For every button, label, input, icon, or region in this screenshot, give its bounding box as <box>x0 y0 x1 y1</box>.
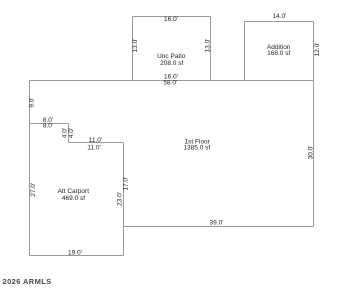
svg-text:8.0': 8.0' <box>43 123 53 130</box>
wire carport bottom wall 19.0 <box>30 255 124 257</box>
wire jog wall 4.0 <box>68 124 70 143</box>
svg-text:11.0': 11.0' <box>87 144 100 151</box>
svg-text:58.0': 58.0' <box>163 80 177 87</box>
svg-text:Unc Patio: Unc Patio <box>157 53 186 60</box>
svg-text:16.0': 16.0' <box>164 16 178 23</box>
wire west wall <box>29 81 31 256</box>
svg-text:11.0': 11.0' <box>89 137 102 144</box>
svg-text:39.0': 39.0' <box>210 220 224 227</box>
wire addition top wall <box>245 21 314 23</box>
svg-text:469.0 sf: 469.0 sf <box>62 195 85 202</box>
svg-text:1385.0 sf: 1385.0 sf <box>183 145 210 152</box>
svg-text:17.0': 17.0' <box>122 177 129 191</box>
svg-text:9.0': 9.0' <box>29 97 36 107</box>
wire jog wall 11.0 <box>69 142 124 144</box>
svg-text:13.0': 13.0' <box>132 39 139 53</box>
wire main bottom wall 39.0 <box>124 226 314 228</box>
svg-text:14.0': 14.0' <box>272 13 286 20</box>
svg-text:30.0': 30.0' <box>308 145 315 159</box>
svg-text:12.0': 12.0' <box>314 43 321 57</box>
wire main right wall (addition+1st floor) <box>313 22 315 227</box>
wire patio right wall <box>210 17 212 81</box>
svg-text:27.0': 27.0' <box>30 183 37 197</box>
wire main top wall 58.0 <box>30 80 314 82</box>
svg-text:13.0': 13.0' <box>204 39 211 53</box>
svg-text:19.0': 19.0' <box>68 250 82 257</box>
wire patio top wall <box>133 16 211 18</box>
svg-text:2026 ARMLS: 2026 ARMLS <box>3 277 52 286</box>
svg-text:23.0': 23.0' <box>116 192 123 206</box>
wire patio left wall <box>132 17 134 81</box>
wire carport east wall <box>123 143 125 256</box>
wire addition left wall <box>244 22 246 81</box>
svg-text:4.0': 4.0' <box>68 128 75 138</box>
svg-text:208.0 sf: 208.0 sf <box>160 60 183 67</box>
wire jog wall 8.0 <box>30 123 69 125</box>
svg-text:168.0 sf: 168.0 sf <box>267 50 290 57</box>
